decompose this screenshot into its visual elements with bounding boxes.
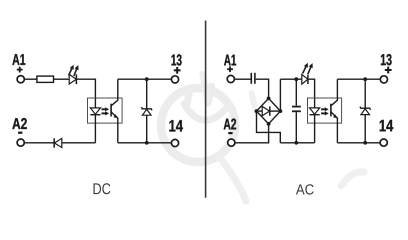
label A2 bbox=[12, 118, 26, 129]
opto2 LED bar bbox=[310, 114, 320, 116]
transistor emitter arrowhead bbox=[113, 114, 117, 118]
opto2 LED triangle bbox=[310, 108, 320, 114]
watermark logo bbox=[161, 74, 364, 201]
AC caption bbox=[296, 184, 314, 194]
bridge rectifier diamond bbox=[257, 98, 281, 124]
terminal 13 (AC) bbox=[380, 76, 387, 83]
watermark far swoosh bbox=[341, 172, 364, 186]
transistor collector bbox=[111, 79, 118, 106]
transistor base bar bbox=[110, 104, 112, 117]
opto U2 coupling arrow 2 bbox=[321, 112, 325, 114]
zener D5 bar with ticks bbox=[360, 107, 371, 110]
junction dot bridge top bbox=[267, 97, 271, 101]
zener D3 triangle (apex up) bbox=[142, 109, 151, 115]
label 14 bbox=[380, 120, 394, 131]
LED D1 triangle bbox=[69, 74, 76, 84]
terminal 14 bbox=[171, 139, 178, 146]
wire diode to opto cathode corner bbox=[62, 142, 96, 144]
LED D4 emission arrow 1 bbox=[303, 66, 307, 74]
wire cap to bridge top bbox=[256, 79, 269, 98]
terminal A1 bbox=[17, 76, 24, 83]
bottom rail A2 to opto bbox=[24, 142, 54, 144]
plus sign at 13 (AC) bbox=[385, 69, 392, 71]
transistor emitter bbox=[111, 112, 118, 143]
plus sign at A1 bbox=[17, 69, 23, 71]
zener D5 triangle bbox=[361, 109, 370, 115]
opto LED cathode down to bottom rail bbox=[94, 115, 96, 143]
divider line bbox=[205, 21, 207, 198]
optocoupler U1 box bbox=[88, 98, 123, 123]
zener D3 bar with ticks bbox=[142, 107, 153, 110]
diode D2 triangle (pointing left) bbox=[55, 138, 62, 147]
diode D2 bar bbox=[53, 138, 55, 147]
LED D4 emission arrow 2 bbox=[308, 66, 311, 74]
LED D1 emission arrow 2 bbox=[74, 68, 77, 76]
junction dot snubber bottom bbox=[294, 141, 298, 145]
label 13 bbox=[172, 54, 182, 65]
wire A1 to cap bbox=[235, 78, 251, 80]
label 13 bbox=[381, 54, 392, 65]
top rail collector to 13 bbox=[337, 78, 380, 80]
DC caption bbox=[94, 183, 111, 194]
junction dot zener2 top bbox=[363, 77, 367, 81]
terminal A2 bbox=[17, 139, 24, 146]
transistor2 emitter arrowhead bbox=[333, 114, 337, 118]
bridge minus path: left vertex down, right, down to rail bbox=[257, 111, 281, 143]
label A2 bbox=[224, 119, 236, 130]
minus sign at A2 (AC) bbox=[228, 132, 232, 134]
bridge inner diode bar bbox=[269, 106, 271, 115]
top rail collector to terminal 13 bbox=[118, 78, 172, 80]
opto U1 coupling arrow 1 bbox=[102, 108, 106, 110]
bridge inner diode triangle bbox=[262, 106, 269, 115]
snubber cap C2 bars bbox=[292, 106, 301, 108]
bottom rail emitter to 14 bbox=[337, 142, 380, 144]
junction dot zener bottom bbox=[145, 141, 149, 145]
junction dot snubber top bbox=[294, 77, 298, 81]
top rail to LED bbox=[280, 78, 302, 80]
wire resistor to LED bbox=[54, 78, 70, 80]
capacitor C1 bars bbox=[250, 73, 252, 84]
DC labels bbox=[12, 54, 183, 131]
wire LED to corner, down into optocoupler bbox=[76, 79, 95, 108]
terminal 13 bbox=[171, 76, 178, 83]
plus sign at 13 bbox=[174, 69, 181, 71]
label A1 bbox=[224, 55, 236, 66]
bottom rail emitter to terminal 14 bbox=[118, 142, 172, 144]
terminal 14 (AC) bbox=[380, 139, 387, 146]
opto U1 coupling arrow 2 bbox=[102, 112, 106, 114]
opto2 LED cathode down to rail bbox=[314, 115, 316, 143]
A2 wire to bridge bottom bbox=[235, 124, 269, 143]
watermark ring bbox=[161, 88, 235, 162]
transistor2 emitter bbox=[331, 112, 338, 143]
bridge inner diode lead left bbox=[259, 110, 263, 112]
wire A1 to resistor bbox=[24, 78, 37, 80]
terminal A2 (AC) bbox=[228, 139, 235, 146]
zener D3 vertical wire bbox=[146, 79, 148, 143]
LED D1 emission arrow 1 bbox=[69, 68, 73, 76]
terminal A1 (AC) bbox=[227, 75, 234, 82]
junction dot bridge bottom bbox=[267, 122, 271, 126]
junction dot zener top bbox=[145, 77, 149, 81]
snubber cap C2 vertical bottom bbox=[295, 112, 297, 143]
junction dot bridge left bbox=[255, 109, 259, 113]
transistor2 collector bbox=[331, 79, 338, 106]
junction dot zener2 bottom bbox=[363, 141, 367, 145]
wire LED to corner into opto box bbox=[308, 79, 315, 108]
optocoupler U2 box bbox=[308, 98, 342, 123]
plus sign at A1 (AC) bbox=[227, 68, 233, 70]
resistor R1 bbox=[37, 76, 54, 82]
opto U2 coupling arrow 1 bbox=[321, 108, 325, 110]
AC labels bbox=[224, 54, 394, 131]
LED D4 triangle bbox=[302, 75, 308, 85]
label 14 bbox=[169, 120, 183, 131]
bridge inner diode lead right bbox=[270, 110, 279, 112]
label A1 bbox=[12, 54, 25, 65]
watermark inner smile bbox=[184, 104, 229, 120]
LED D1 cathode bar bbox=[75, 74, 77, 84]
junction dot bridge right bbox=[279, 109, 283, 113]
LED D4 cathode bar bbox=[307, 75, 309, 85]
watermark fletch strokes bbox=[187, 89, 191, 106]
zener D5 vertical bbox=[364, 79, 366, 143]
opto LED bar bbox=[90, 114, 100, 116]
opto LED triangle bbox=[90, 108, 100, 114]
minus sign at A2 bbox=[18, 132, 22, 134]
watermark tail bbox=[220, 158, 246, 201]
bridge right vertex up to top rail bbox=[279, 79, 281, 111]
snubber cap C2 vertical top bbox=[295, 79, 297, 106]
watermark piece near cap bbox=[252, 93, 257, 113]
minus rail to opto cathode bbox=[280, 142, 314, 144]
transistor2 base bar bbox=[330, 104, 332, 117]
